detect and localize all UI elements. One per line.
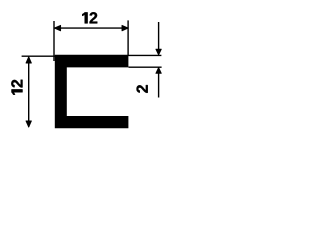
top dimension: right arrowhead: [122, 25, 128, 30]
right thickness dimension: up arrowhead: [156, 68, 161, 74]
left dimension: top extension line: [22, 55, 55, 57]
right thickness dimension: down arrowhead: [156, 49, 161, 55]
top dimension: left extension line: [53, 21, 55, 61]
left dimension: label 12 rotated - digit 1: [11, 89, 22, 94]
right thickness dimension: lower leader line: [158, 73, 160, 98]
right thickness dimension: label 2 rotated: [137, 85, 148, 93]
left dimension: down arrowhead: [26, 121, 31, 127]
left dimension: up arrowhead: [26, 57, 31, 63]
top dimension: left arrowhead: [54, 25, 60, 30]
top dimension: right extension line: [127, 20, 129, 56]
right thickness dimension: upper leader line: [158, 22, 160, 50]
left dimension: label 12 rotated - digit 2: [11, 80, 22, 88]
right thickness dimension: lower extension line: [129, 66, 162, 68]
left dimension: dimension line: [28, 57, 30, 127]
right thickness dimension: upper extension line: [129, 54, 162, 56]
top dimension: label 12 - digit 2: [90, 12, 98, 23]
top dimension: label 12 - digit 1: [82, 12, 87, 23]
C-channel profile cross-section (12x12x2): [55, 55, 129, 129]
top dimension: dimension line: [55, 27, 128, 29]
